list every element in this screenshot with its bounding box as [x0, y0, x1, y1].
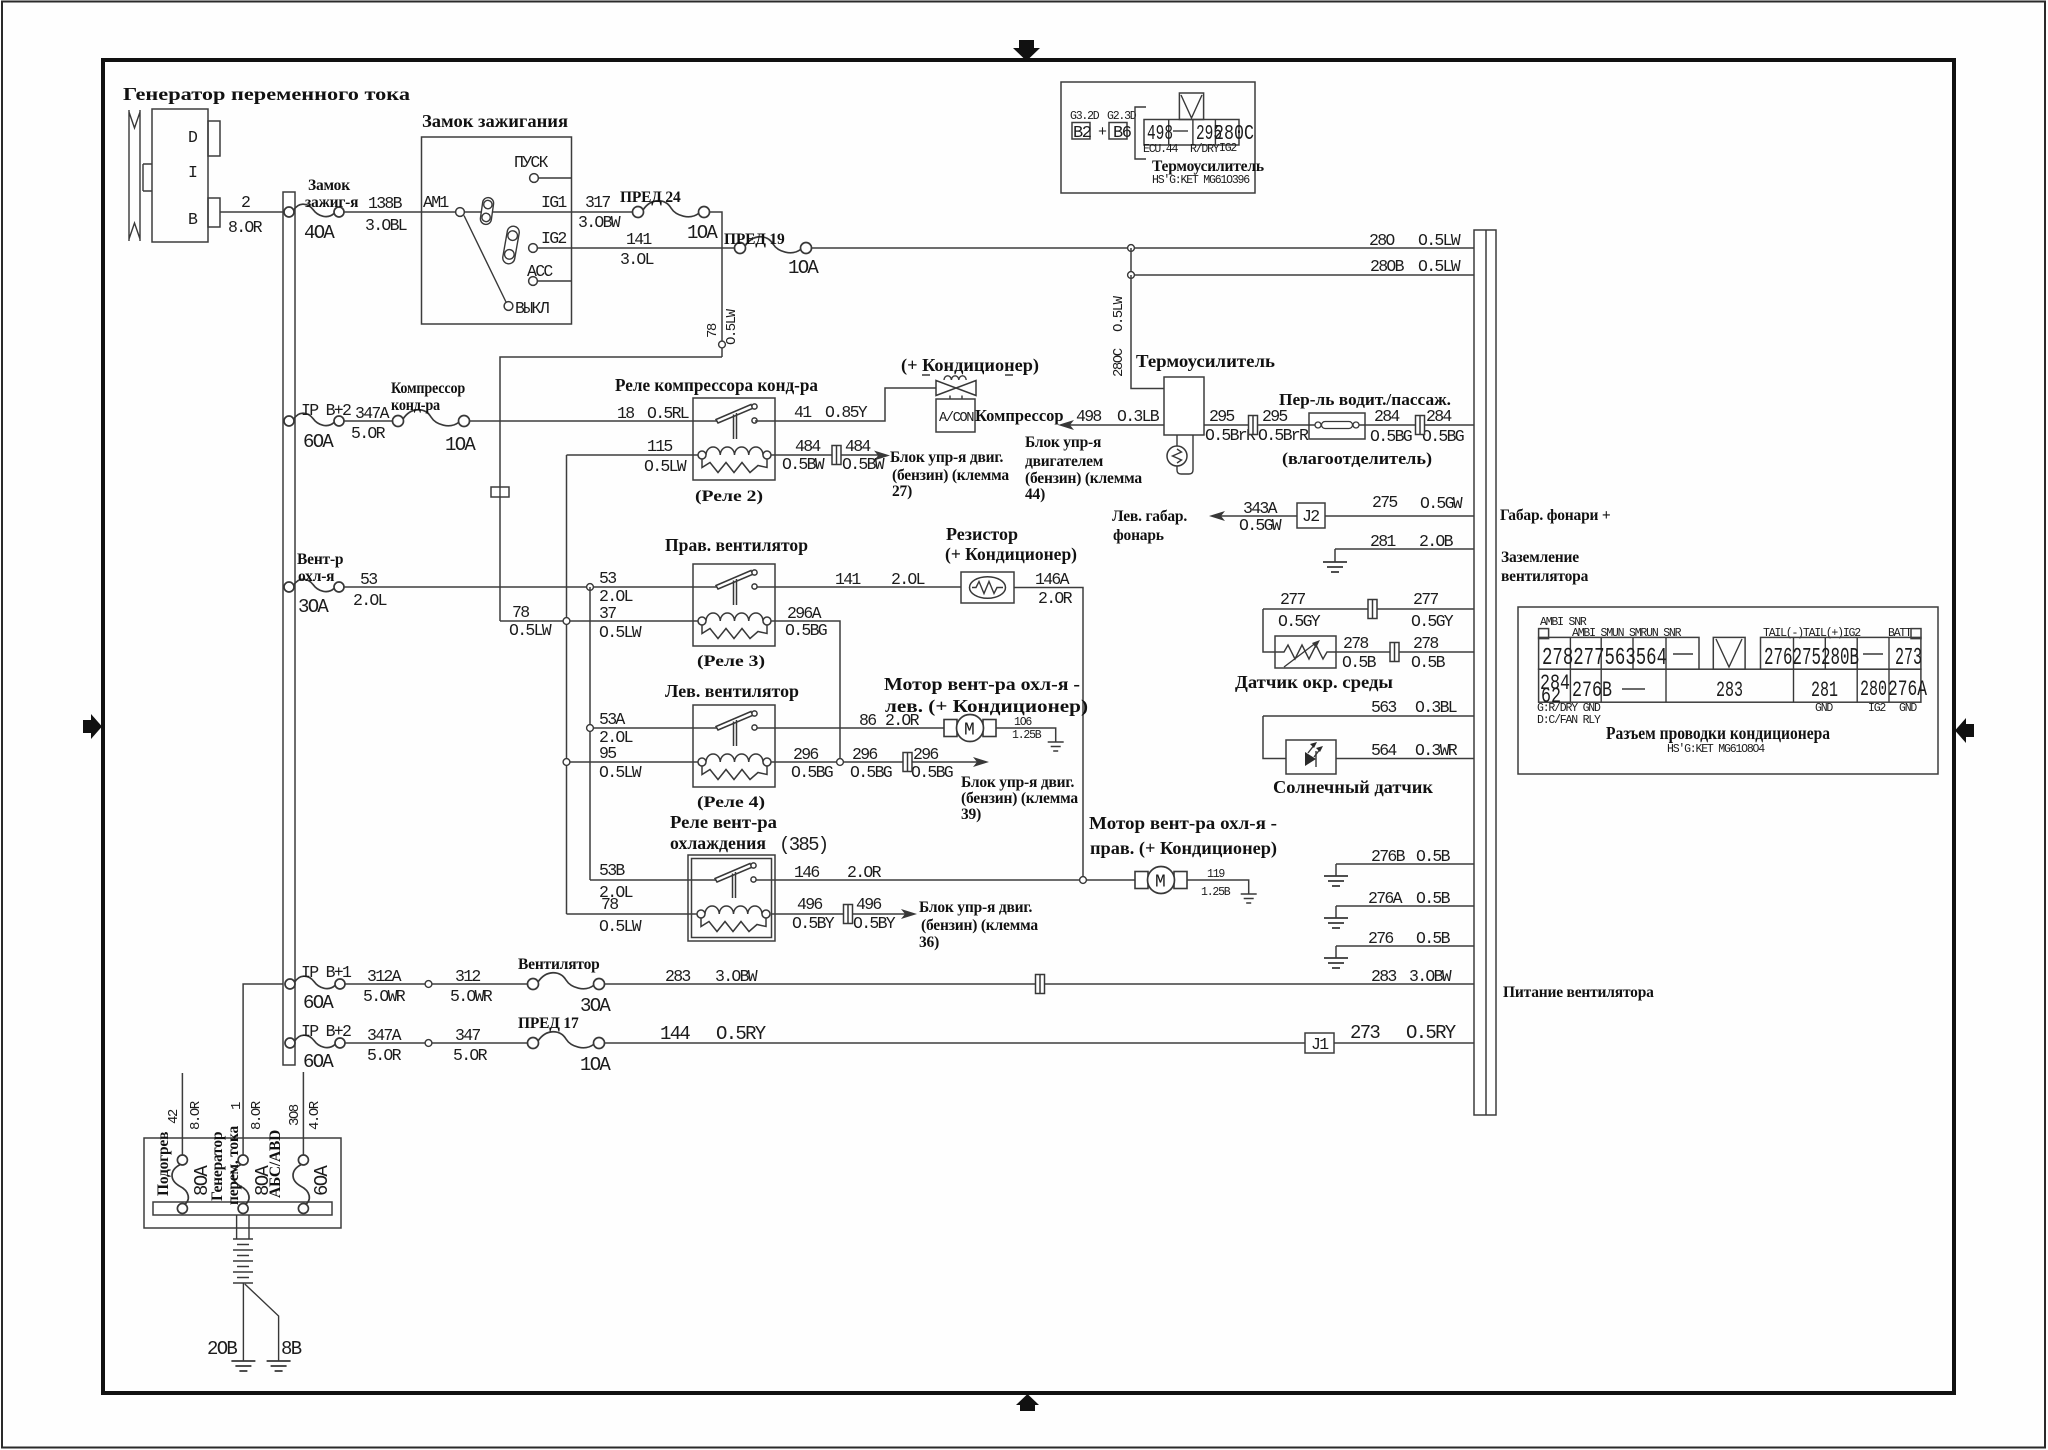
title Мотор вент-ра охл-я - лев.	[884, 674, 1088, 717]
svg-text:прав. (+ Кондиционер): прав. (+ Кондиционер)	[1090, 838, 1277, 859]
svg-text:278277563564: 278277563564	[1542, 645, 1667, 672]
svg-text:280: 280	[1860, 677, 1887, 702]
label Лев. габар. фонарь	[1112, 508, 1187, 544]
ignition switch label IG1	[541, 193, 567, 212]
svg-text:O.5BW: O.5BW	[782, 455, 825, 474]
svg-text:GND: GND	[1899, 702, 1917, 715]
svg-text:O.5RY: O.5RY	[1406, 1022, 1457, 1044]
svg-text:Габар. фонари +: Габар. фонари +	[1500, 507, 1611, 524]
title (+ Кондиционер)	[901, 355, 1039, 376]
connector circle on wire 78	[719, 341, 726, 348]
junction box J2	[1297, 503, 1325, 528]
svg-text:138В: 138В	[368, 194, 403, 213]
relay 4 box	[693, 705, 775, 787]
coil feed vertical 0.5LW	[566, 455, 568, 914]
svg-text:141: 141	[835, 570, 861, 589]
svg-text:O.5LW: O.5LW	[1111, 295, 1127, 332]
svg-text:3.OBW: 3.OBW	[1409, 967, 1452, 986]
svg-text:O.5B: O.5B	[1416, 847, 1451, 866]
svg-text:Мотор вент-ра охл-я -: Мотор вент-ра охл-я -	[1089, 813, 1277, 833]
svg-text:1OА: 1OА	[687, 222, 718, 244]
generator G1 box	[152, 109, 208, 242]
wire 146A 2.0R down	[1014, 570, 1083, 880]
svg-text:IG2: IG2	[1219, 142, 1237, 155]
svg-text:2OВ: 2OВ	[207, 1338, 237, 1360]
fuse Компрессор конд-ра 10А	[344, 380, 476, 456]
battery fuse Подогрев 80А	[155, 1132, 213, 1214]
svg-text:296: 296	[793, 745, 818, 764]
svg-text:O.5LW: O.5LW	[644, 457, 687, 476]
svg-text:1OА: 1OА	[580, 1054, 611, 1076]
ignition switch box	[422, 137, 572, 324]
svg-text:зажиг-я: зажиг-я	[305, 194, 358, 211]
relay 2 box	[693, 398, 775, 480]
svg-text:АСС: АСС	[527, 262, 553, 281]
label (Реле 4)	[697, 794, 765, 811]
svg-text:484: 484	[795, 437, 821, 456]
svg-text:IG1: IG1	[541, 193, 567, 212]
title Датчик окр. среды	[1235, 672, 1393, 692]
svg-text:O.85Y: O.85Y	[825, 403, 868, 422]
svg-text:563: 563	[1371, 698, 1396, 717]
ignition switch contact IG2	[529, 229, 567, 252]
svg-text:119: 119	[1207, 868, 1225, 881]
title Реле вент-ра охлаждения (385)	[670, 812, 828, 856]
svg-text:O.5LW: O.5LW	[509, 621, 552, 640]
svg-text:276A: 276A	[1368, 889, 1403, 908]
junction 296/296A	[837, 759, 844, 766]
svg-text:146: 146	[794, 863, 819, 882]
svg-text:O.5BY: O.5BY	[853, 914, 896, 933]
wire 106 1.25B to ground	[996, 716, 1056, 742]
svg-text:278: 278	[1413, 634, 1438, 653]
junction 280B	[1128, 272, 1135, 279]
pin grid 498 295 280C	[1144, 120, 1239, 146]
footer pin names	[1537, 702, 1917, 727]
svg-text:O.5GY: O.5GY	[1411, 612, 1454, 631]
bracket	[1135, 107, 1146, 159]
svg-text:564: 564	[1371, 741, 1397, 760]
battery leads	[237, 1215, 249, 1239]
wire 146 2.0R to right fan motor	[756, 863, 1135, 882]
fuse ПРЕД 17 10А	[518, 1015, 611, 1076]
junction 95	[563, 759, 570, 766]
relay 3 internals	[698, 570, 771, 639]
rotated wire labels 42 8.0R	[166, 1100, 204, 1130]
svg-text:1O6: 1O6	[1014, 716, 1032, 729]
svg-text:двигателем: двигателем	[1025, 453, 1104, 470]
junction 53A	[587, 725, 594, 732]
svg-text:O.5BG: O.5BG	[850, 763, 892, 782]
pin names ECU.44 R/DRY IG2	[1143, 142, 1237, 156]
wire 343A 0.5GW with left arrow	[1209, 499, 1297, 535]
ground 276B	[1324, 876, 1348, 886]
svg-text:28OB: 28OB	[1370, 257, 1405, 276]
thermo amplifier connector box MG610396	[1061, 82, 1255, 193]
svg-text:347: 347	[455, 1026, 480, 1045]
svg-text:2.OR: 2.OR	[885, 711, 920, 730]
fuse ПРЕД 24 10А	[620, 189, 718, 244]
svg-text:284: 284	[1374, 407, 1400, 426]
wire 141 2.0L to resistor	[757, 570, 961, 589]
riser from battery fuse 2 to IP B+1	[243, 984, 283, 1160]
svg-text:Замок зажигания: Замок зажигания	[422, 111, 568, 131]
connector on 496 wire	[844, 905, 853, 924]
wire 273 0.5RY to bus	[1334, 1022, 1474, 1044]
wire 496 0.5BY to ECU	[771, 895, 917, 933]
wire 498 0.3LB from thermo amplifier	[1058, 407, 1164, 430]
svg-text:276B: 276B	[1371, 847, 1406, 866]
wire 347 5.0R	[345, 1026, 527, 1065]
relay 385 internals	[697, 863, 770, 932]
svg-text:115: 115	[647, 437, 672, 456]
svg-text:347A: 347A	[367, 1026, 402, 1045]
svg-text:6OА: 6OА	[311, 1165, 333, 1196]
svg-text:295: 295	[1209, 407, 1234, 426]
wire 563 0.3BL	[1263, 698, 1474, 717]
connector grid row2	[1539, 669, 1921, 702]
wire 278 0.5B to bus	[1336, 634, 1474, 672]
svg-text:O.5LW: O.5LW	[1418, 231, 1461, 250]
svg-text:283: 283	[1716, 678, 1743, 703]
svg-text:Заземление: Заземление	[1501, 549, 1579, 566]
title: Генератор переменного тока	[123, 84, 410, 104]
svg-text:(+ Кондиционер): (+ Кондиционер)	[901, 355, 1039, 376]
svg-text:2.OL: 2.OL	[353, 591, 387, 610]
svg-text:8.OR: 8.OR	[249, 1100, 265, 1130]
vertical 78 wire branch	[500, 357, 722, 621]
svg-text:Разъем проводки кондиционера: Разъем проводки кондиционера	[1606, 723, 1830, 743]
svg-text:IP B+1: IP B+1	[301, 963, 352, 982]
ground 20B	[231, 1361, 255, 1371]
vertical 53 branch	[589, 587, 591, 880]
svg-text:Блок упр-я: Блок упр-я	[1025, 434, 1101, 451]
svg-text:O.5LW: O.5LW	[724, 308, 740, 345]
svg-text:(бензин) (клемма: (бензин) (клемма	[921, 917, 1038, 934]
svg-text:496: 496	[856, 895, 881, 914]
wire 280 0.5LW to connector bus	[811, 231, 1474, 250]
title: Прав. вентилятор	[665, 535, 808, 555]
svg-text:28O: 28O	[1369, 231, 1395, 250]
svg-text:2.OB: 2.OB	[1419, 532, 1454, 551]
svg-text:O.5LW: O.5LW	[599, 917, 642, 936]
junction 53	[587, 584, 594, 591]
svg-text:53: 53	[599, 569, 616, 588]
generator belt bracket	[143, 164, 152, 191]
svg-text:86: 86	[859, 711, 876, 730]
svg-text:Замок: Замок	[308, 177, 350, 194]
svg-text:I: I	[188, 163, 197, 182]
fuse ПРЕД 19 10А	[724, 231, 819, 279]
AC wiring connector box MG610804	[1518, 607, 1938, 774]
svg-text:5.OWR: 5.OWR	[363, 987, 406, 1006]
wire 141 3.0L from IG2	[537, 230, 735, 269]
wire 484 0.5BW to ECU	[771, 437, 890, 474]
label 20В	[207, 1338, 237, 1360]
svg-text:296: 296	[913, 745, 938, 764]
svg-text:A/CON: A/CON	[939, 410, 974, 426]
svg-text:O.5B: O.5B	[1411, 653, 1446, 672]
battery fuse АБС/ABD 60А	[267, 1130, 333, 1214]
svg-text:вентилятора: вентилятора	[1501, 568, 1589, 585]
generator terminal tab D	[208, 121, 220, 156]
sun sensor box with photodiode	[1286, 740, 1336, 774]
svg-text:O.5B: O.5B	[1342, 653, 1377, 672]
svg-text:1OА: 1OА	[445, 434, 476, 456]
svg-text:78: 78	[512, 603, 529, 622]
svg-text:ECU.44: ECU.44	[1143, 143, 1179, 156]
svg-text:ВЫКЛ: ВЫКЛ	[515, 299, 549, 318]
svg-text:4OА: 4OА	[304, 222, 335, 244]
wire 312 5.0WR	[345, 967, 527, 1006]
svg-text:44): 44)	[1025, 486, 1045, 503]
svg-text:B6: B6	[1113, 124, 1132, 143]
svg-text:6OА: 6OА	[303, 992, 334, 1014]
svg-text:Питание вентилятора: Питание вентилятора	[1503, 984, 1654, 1001]
battery negative leads to ground	[243, 1283, 278, 1361]
wire 283 3.0BW across to bus	[604, 967, 1474, 986]
svg-text:Солнечный датчик: Солнечный датчик	[1273, 777, 1434, 797]
wire 281 2.0B ground	[1335, 532, 1474, 562]
ECU text block terminal 27	[890, 449, 1009, 500]
svg-text:O.5LW: O.5LW	[599, 763, 642, 782]
svg-text:охлаждения: охлаждения	[670, 833, 766, 853]
svg-text:8.OR: 8.OR	[188, 1100, 204, 1130]
svg-text:146A: 146A	[1035, 570, 1070, 589]
title Термоусилитель	[1136, 351, 1275, 371]
svg-text:295: 295	[1262, 407, 1287, 426]
svg-text:Резистор: Резистор	[946, 524, 1018, 544]
wire 41 0.85Y to compressor	[755, 388, 936, 422]
header AMBI SNR	[1539, 616, 1587, 639]
connector on 484 wire	[832, 446, 841, 465]
svg-text:АБС/ABD: АБС/ABD	[267, 1130, 284, 1198]
svg-text:HS'G:KET MG61O396: HS'G:KET MG61O396	[1152, 174, 1250, 187]
svg-text:484: 484	[845, 437, 871, 456]
svg-text:8В: 8В	[281, 1338, 302, 1360]
svg-text:(бензин) (клемма: (бензин) (клемма	[1025, 470, 1142, 487]
connector circle 347	[425, 1040, 432, 1047]
svg-text:2.OL: 2.OL	[891, 570, 925, 589]
wire 2 8.0R from B to fuse bus	[220, 193, 283, 237]
svg-text:Вент-р: Вент-р	[297, 551, 343, 568]
header pins row small text	[1572, 627, 1921, 640]
svg-text:R/DRY: R/DRY	[1190, 143, 1220, 156]
svg-text:95: 95	[599, 744, 616, 763]
svg-text:496: 496	[797, 895, 822, 914]
title Мотор вент-ра охл-я - прав.	[1089, 813, 1277, 859]
wire 277 0.5GY	[1263, 590, 1474, 631]
svg-text:Генератор переменного тока: Генератор переменного тока	[123, 84, 410, 104]
svg-text:O.5BrR: O.5BrR	[1258, 426, 1309, 445]
wire 144 0.5RY to J1	[604, 1023, 1305, 1045]
svg-text:53A: 53A	[599, 710, 625, 729]
svg-text:IG2: IG2	[541, 229, 566, 248]
svg-text:Блок упр-я двиг.: Блок упр-я двиг.	[890, 449, 1003, 466]
svg-text:498: 498	[1076, 407, 1101, 426]
wire 276A 0.5B ground	[1336, 889, 1474, 918]
svg-text:3.OL: 3.OL	[620, 250, 654, 269]
svg-text:283: 283	[1371, 967, 1396, 986]
ground 276A	[1324, 918, 1348, 928]
compressor thermal protector bowtie	[936, 376, 976, 399]
wire 280B 0.5LW	[1131, 248, 1474, 276]
svg-text:276: 276	[1368, 929, 1393, 948]
ambient sensor box with variable resistor	[1275, 636, 1336, 668]
junction box J1	[1305, 1033, 1334, 1054]
wire 53B 2.0L to relay 385	[590, 861, 716, 902]
wire 37 0.5LW to relay3 coil	[500, 569, 702, 642]
svg-text:O.5BG: O.5BG	[1370, 427, 1412, 446]
svg-text:276275280B: 276275280B	[1764, 645, 1859, 672]
connector pin B6	[1107, 110, 1137, 143]
svg-text:(Реле 2): (Реле 2)	[695, 488, 763, 505]
row2 pin numbers	[1540, 671, 1928, 709]
svg-text:G3.2D: G3.2D	[1070, 110, 1100, 123]
wire 115 0.5LW to relay2 coil	[567, 437, 703, 476]
junction 146/146A	[1080, 877, 1087, 884]
fusible link IP B+2 60А (top)	[284, 401, 390, 453]
net label Заземление вентилятора	[1501, 549, 1589, 585]
svg-text:(Реле 3): (Реле 3)	[697, 653, 765, 670]
svg-text:1.25B: 1.25B	[1012, 729, 1042, 742]
svg-text:B2: B2	[1073, 124, 1091, 143]
svg-text:O.5BG: O.5BG	[785, 621, 827, 640]
svg-text:ПРЕД 17: ПРЕД 17	[518, 1015, 579, 1032]
svg-text:39): 39)	[961, 806, 981, 823]
svg-text:+: +	[1098, 124, 1107, 141]
ignition switch rotor arm to ВЫКЛ	[464, 216, 506, 303]
title: Лев. вентилятор	[665, 681, 799, 701]
svg-text:5.OR: 5.OR	[453, 1046, 488, 1065]
svg-text:(+ Кондиционер): (+ Кондиционер)	[945, 544, 1077, 565]
svg-text:1.25B: 1.25B	[1201, 886, 1231, 899]
connector on 284 wire	[1416, 416, 1425, 435]
battery fuse Генератор перем. тока 80А	[209, 1126, 274, 1214]
junction 280/280C	[1128, 245, 1135, 252]
title: Замок зажигания	[422, 111, 568, 131]
battery fuse strip	[153, 1202, 332, 1215]
title Солнечный датчик	[1273, 777, 1434, 797]
svg-text:3OА: 3OА	[580, 995, 611, 1017]
ignition switch contact ACC	[527, 262, 572, 285]
svg-text:42: 42	[166, 1109, 182, 1124]
svg-text:3.OBW: 3.OBW	[578, 213, 621, 232]
svg-text:Вентилятор: Вентилятор	[518, 956, 600, 973]
sun sensor link	[1263, 716, 1286, 759]
ground 8B	[267, 1361, 291, 1371]
svg-text:Компрессор: Компрессор	[391, 380, 465, 397]
svg-text:8.OR: 8.OR	[228, 218, 263, 237]
relay 2 internals	[698, 404, 771, 473]
riser battery fuse 3	[302, 1072, 304, 1160]
svg-text:O.5BG: O.5BG	[791, 763, 833, 782]
svg-text:O.5B: O.5B	[1416, 929, 1451, 948]
riser battery fuse 1	[181, 1073, 183, 1160]
title Резистор (+ Кондиционер)	[945, 524, 1077, 565]
svg-text:53B: 53B	[599, 861, 625, 880]
row1 left pin numbers	[1542, 645, 1693, 672]
svg-text:53: 53	[360, 570, 377, 589]
ambient sensor link	[1263, 609, 1280, 652]
svg-text:(влагоотделитель): (влагоотделитель)	[1282, 449, 1432, 468]
compressor clutch A/CON box	[936, 399, 1064, 432]
battery plates	[233, 1239, 253, 1283]
svg-text:GND: GND	[1815, 702, 1833, 715]
svg-text:O.5GY: O.5GY	[1278, 612, 1321, 631]
connector grid row1 left	[1539, 637, 1699, 669]
wire 317 3.0BW IG1 to fuse ПРЕД 24	[578, 193, 621, 232]
svg-text:(бензин) (клемма: (бензин) (клемма	[892, 467, 1009, 484]
svg-text:18: 18	[617, 404, 634, 423]
svg-text:IP B+2: IP B+2	[301, 1022, 351, 1041]
wire 275 0.5GW to bus	[1325, 493, 1474, 516]
svg-text:ПРЕД 24: ПРЕД 24	[620, 189, 681, 206]
svg-text:3.OBW: 3.OBW	[715, 967, 758, 986]
connector on 283 wire	[1036, 975, 1045, 994]
svg-text:2: 2	[241, 193, 250, 212]
left fan motor M	[944, 715, 996, 742]
label (Реле 3)	[697, 653, 765, 670]
svg-text:78: 78	[601, 895, 618, 914]
wire 296A 0.5BG	[771, 604, 840, 762]
label 8В	[281, 1338, 302, 1360]
ignition switch moving contact capsule 2	[502, 225, 520, 265]
svg-text:277: 277	[1280, 590, 1305, 609]
svg-text:3O8: 3O8	[287, 1104, 303, 1126]
title Разъем проводки кондиционера	[1606, 723, 1830, 756]
svg-text:296: 296	[852, 745, 877, 764]
label (влагоотделитель)	[1282, 449, 1432, 468]
connector on 295 wire	[1249, 416, 1258, 435]
wire 138B 3.0BL to ignition switch	[344, 194, 633, 235]
ignition switch contact ПУСК	[514, 153, 572, 182]
svg-text:фонарь: фонарь	[1113, 527, 1164, 544]
svg-text:4.OR: 4.OR	[307, 1100, 323, 1130]
svg-text:27): 27)	[892, 483, 912, 500]
net label Питание вентилятора	[1503, 984, 1654, 1001]
ignition switch moving contact capsule 1	[480, 197, 495, 225]
svg-text:281: 281	[1370, 532, 1396, 551]
svg-text:конд-ра: конд-ра	[391, 397, 440, 414]
svg-text:(385): (385)	[779, 834, 828, 856]
svg-text:Блок упр-я двиг.: Блок упр-я двиг.	[919, 899, 1032, 916]
svg-text:41: 41	[794, 403, 812, 422]
ECU text block terminal 44	[1025, 434, 1142, 503]
rotated wire labels 308 4.0R	[287, 1100, 323, 1130]
generator pulley	[129, 110, 140, 241]
fusible link Замок зажиг-я 40А	[284, 177, 358, 244]
svg-text:ПРЕД 19: ПРЕД 19	[724, 231, 785, 248]
svg-text:144: 144	[660, 1023, 690, 1045]
svg-text:J2: J2	[1302, 507, 1319, 526]
right connector bus bar	[1474, 230, 1496, 1115]
wire 276 0.5B ground	[1336, 929, 1474, 958]
svg-text:276A: 276A	[1888, 677, 1928, 702]
generator terminal tab B	[208, 198, 220, 227]
svg-text:(бензин) (клемма: (бензин) (клемма	[961, 790, 1078, 807]
fusible link box влагоотделитель	[1309, 413, 1365, 439]
connector grid row1 right	[1761, 637, 1921, 669]
svg-text:IG2: IG2	[1868, 702, 1886, 715]
connector on 0.5LW branch	[491, 487, 509, 497]
svg-text:6OА: 6OА	[303, 431, 334, 453]
wire 53 2.0L to relay 3	[344, 570, 717, 610]
wire from ПРЕД 24 down to 141 line	[709, 212, 722, 357]
svg-text:охл-я: охл-я	[298, 568, 334, 585]
relay 4 internals	[698, 711, 771, 780]
ground right fan motor	[1241, 894, 1257, 903]
